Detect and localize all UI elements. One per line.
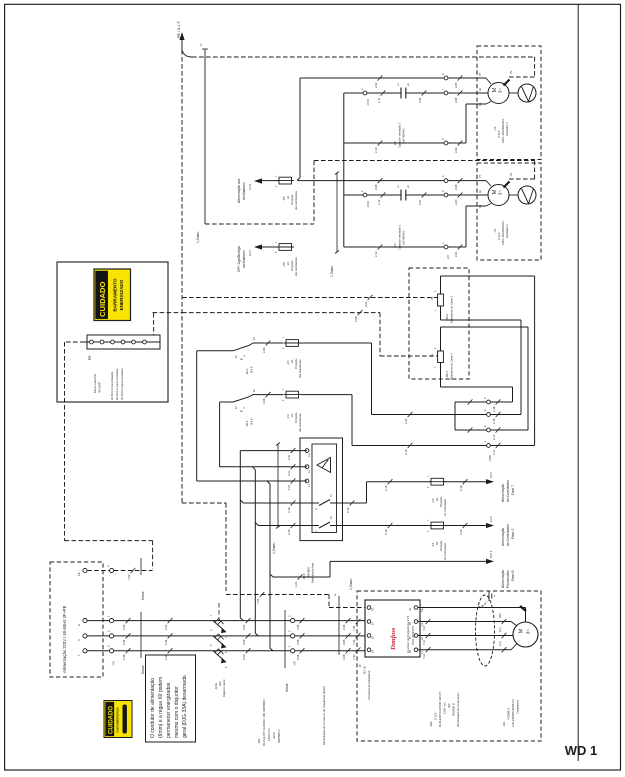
svg-text:2-05: 2-05 xyxy=(342,639,346,645)
svg-text:Danfoss: Danfoss xyxy=(390,627,397,651)
svg-text:CUIDADO: CUIDADO xyxy=(109,706,115,734)
node supply S xyxy=(77,634,87,641)
svg-text:Proteção: Proteção xyxy=(294,358,298,369)
label motor V2 xyxy=(493,118,509,143)
svg-text:Barra metal PE: Barra metal PE xyxy=(93,374,97,393)
node X0 3 xyxy=(107,645,116,666)
svg-text:3~: 3~ xyxy=(498,190,503,195)
svg-text:Proteção: Proteção xyxy=(294,412,298,423)
svg-text:-P5: -P5 xyxy=(282,262,286,267)
wire drive in slashes xyxy=(353,619,360,660)
svg-text:-XV0: -XV0 xyxy=(366,201,370,208)
svg-text:7-4S: 7-4S xyxy=(353,639,356,645)
label PE busbar xyxy=(88,355,102,393)
svg-text:2x 06mm² para fixação: 2x 06mm² para fixação xyxy=(110,371,114,400)
svg-text:-F4: -F4 xyxy=(286,360,290,365)
svg-text:2-12: 2-12 xyxy=(288,484,291,490)
label IF drive xyxy=(358,664,371,700)
svg-text:Resistência do Carter 1: Resistência do Carter 1 xyxy=(450,352,454,380)
svg-text:3~: 3~ xyxy=(498,88,503,93)
svg-text:/9.4 E: /9.4 E xyxy=(250,418,254,425)
wire F4 to XRC3 xyxy=(301,343,487,424)
wire tap L1 xyxy=(197,478,307,650)
node VLT in L3 xyxy=(367,620,374,625)
svg-text:-V1: -V1 xyxy=(493,126,497,131)
svg-text:6mm²: 6mm² xyxy=(141,590,145,600)
label busbar notes xyxy=(110,368,124,400)
svg-text:PT: PT xyxy=(479,72,482,76)
node RFF L2 xyxy=(305,465,311,473)
svg-text:300/500 V: 300/500 V xyxy=(277,729,281,743)
wire drive out L2 xyxy=(418,627,513,645)
svg-text:Inversor de frequência VLT: Inversor de frequência VLT xyxy=(406,616,410,653)
wire RC2 bottom loop xyxy=(441,320,522,415)
svg-text:Alimentação dos: Alimentação dos xyxy=(237,178,241,203)
node X0 2 xyxy=(107,630,114,638)
svg-text:PE: PE xyxy=(372,607,375,611)
svg-text:S: S xyxy=(77,639,81,641)
wire PE main dashed vertical xyxy=(181,50,183,503)
wire 6mm2 gauge XC xyxy=(285,610,289,692)
svg-text:-F3: -F3 xyxy=(286,414,290,419)
svg-text:2-15: 2-15 xyxy=(404,449,408,455)
svg-text:CUIDADO: CUIDADO xyxy=(98,281,107,317)
node RFF L3 xyxy=(305,449,311,457)
svg-text:Fase S: Fase S xyxy=(511,528,515,539)
svg-text:2-15: 2-15 xyxy=(346,507,350,513)
wire drive out L3 xyxy=(418,613,517,631)
svg-text:2-03: 2-03 xyxy=(242,654,246,660)
svg-text:Alimentação 220V / 50-60Hz 3F+: Alimentação 220V / 50-60Hz 3F+PE xyxy=(62,605,67,673)
svg-text:PE / 6.1 F: PE / 6.1 F xyxy=(177,20,181,38)
svg-text:2-13: 2-13 xyxy=(374,251,378,257)
node arrow pressostato fase R xyxy=(486,550,515,588)
svg-text:230V~230V/60Hz/1F: 230V~230V/60Hz/1F xyxy=(501,118,505,143)
motor M1 compressor xyxy=(513,622,538,647)
svg-text:R: R xyxy=(77,624,81,626)
svg-text:2-04: 2-04 xyxy=(296,624,300,630)
resistor RC1 xyxy=(431,327,454,387)
node XRC terminal 1 xyxy=(483,440,500,462)
wire PE dashed to RC1 xyxy=(182,310,437,356)
svg-text:PE: PE xyxy=(77,572,81,576)
svg-text:PE: PE xyxy=(431,353,434,357)
dashed box ventilador 1 group xyxy=(477,163,541,260)
svg-text:-M1: -M1 xyxy=(502,722,506,727)
svg-text:2-05: 2-05 xyxy=(296,639,300,645)
svg-text:2-06: 2-06 xyxy=(374,184,378,190)
svg-text:1,5mm²: 1,5mm² xyxy=(349,578,353,590)
svg-text:F: F xyxy=(240,410,244,412)
svg-text:Alimentação: Alimentação xyxy=(501,484,505,502)
label RFF xyxy=(302,562,315,583)
cable W1 function label xyxy=(322,686,326,745)
svg-text:2-06: 2-06 xyxy=(342,654,346,660)
svg-text:4A: 4A xyxy=(435,542,439,545)
svg-text:6mm²: 6mm² xyxy=(141,664,145,674)
wire supply to X0 PE xyxy=(87,570,109,572)
contact RL1 lower xyxy=(220,389,283,467)
wire phase R row xyxy=(114,618,365,630)
motor V2 fan2 xyxy=(479,72,509,106)
node XV0 terminal fan2 xyxy=(360,88,370,106)
svg-text:2-19: 2-19 xyxy=(459,485,463,491)
motor V2 PE tick xyxy=(504,70,514,85)
wire drive out PE xyxy=(418,608,526,623)
wire fan1 row mid xyxy=(344,192,488,205)
svg-text:-XRC: -XRC xyxy=(488,454,492,462)
capacitor C2 xyxy=(393,83,410,148)
svg-text:2A: 2A xyxy=(290,414,294,417)
svg-text:-RL1: -RL1 xyxy=(245,420,249,427)
wire PE busbar right riser xyxy=(153,313,182,335)
fuse F3 xyxy=(282,388,302,432)
svg-text:2-16: 2-16 xyxy=(384,529,388,535)
svg-text:ventiladores: ventiladores xyxy=(242,250,246,268)
svg-text:9.2 E: 9.2 E xyxy=(248,184,252,190)
svg-text:PE: PE xyxy=(409,607,412,611)
svg-text:PE: PE xyxy=(88,355,92,360)
svg-text:Capacitor ventilador 1: Capacitor ventilador 1 xyxy=(398,224,402,250)
svg-text:2A: 2A xyxy=(286,196,290,199)
svg-text:(U1): (U1) xyxy=(499,641,502,646)
svg-text:2A: 2A xyxy=(290,360,294,363)
svg-text:-V1: -V1 xyxy=(493,228,497,233)
svg-text:2-03: 2-03 xyxy=(374,82,378,88)
svg-text:1-04: 1-04 xyxy=(164,639,168,645)
svg-text:5uF 450VAC: 5uF 450VAC xyxy=(402,230,406,245)
node supply T xyxy=(77,649,87,656)
svg-text:300/500 V: 300/500 V xyxy=(452,703,456,716)
svg-text:-W2: -W2 xyxy=(429,721,433,727)
svg-text:(7.8) F: (7.8) F xyxy=(497,130,501,138)
node XV terminal 8 xyxy=(441,73,448,80)
wire pressostato row xyxy=(270,561,486,587)
label motor V1 xyxy=(493,220,509,245)
svg-text:9.2 F: 9.2 F xyxy=(248,250,252,256)
node XRC terminal 3 xyxy=(483,409,500,424)
motor V1 PE tick xyxy=(504,172,514,187)
svg-text:(7.2) F: (7.2) F xyxy=(434,712,438,720)
wire PE busbar left drop xyxy=(65,342,153,569)
node PE to sheet 6.1F (arrow) xyxy=(177,20,185,50)
svg-text:2-07: 2-07 xyxy=(454,199,458,205)
node XV terminal 7 xyxy=(441,88,448,95)
logo Danfoss xyxy=(390,627,397,651)
cable W2 label xyxy=(429,691,460,727)
fuse P6 xyxy=(275,175,298,210)
svg-text:2x 06mm² para conexões: 2x 06mm² para conexões xyxy=(115,368,119,400)
svg-text:-XV0: -XV0 xyxy=(366,99,370,106)
svg-text:6x 06mm² para conexões: 6x 06mm² para conexões xyxy=(120,368,124,400)
svg-text:do Controlador: do Controlador xyxy=(443,543,447,560)
circuit breaker DJG pole 2 xyxy=(210,629,228,653)
label M1 xyxy=(502,699,520,727)
svg-text:-X0: -X0 xyxy=(112,661,116,666)
dashed OP box xyxy=(205,161,314,225)
svg-text:Disjuntor Geral: Disjuntor Geral xyxy=(222,679,226,697)
svg-text:ENERGIZADO: ENERGIZADO xyxy=(119,279,124,310)
note box text xyxy=(146,655,196,742)
svg-text:Fase T: Fase T xyxy=(511,485,515,495)
svg-text:VTZ086-G: VTZ086-G xyxy=(507,708,511,720)
svg-text:2-11: 2-11 xyxy=(377,97,381,103)
node X0 PE xyxy=(107,565,114,573)
svg-text:33A: 33A xyxy=(218,681,222,686)
relay RFF box xyxy=(300,438,343,541)
label VLT inside xyxy=(406,616,415,653)
wire fan1 row bottom xyxy=(344,204,491,258)
wire PE dashed lower xyxy=(182,503,226,591)
svg-text:7-02: 7-02 xyxy=(256,598,260,604)
svg-text:-XC: -XC xyxy=(293,660,297,666)
svg-text:2-18: 2-18 xyxy=(492,406,496,412)
svg-text:2-11: 2-11 xyxy=(288,471,291,476)
svg-text:208-480V: 208-480V xyxy=(307,566,311,578)
contact RFF 1 xyxy=(240,494,342,513)
svg-text:-F1: -F1 xyxy=(431,542,435,547)
svg-text:2-12: 2-12 xyxy=(377,199,381,205)
wire XRC1 field xyxy=(490,445,534,447)
cable shield xyxy=(476,595,495,666)
node XV0 terminal fan1 xyxy=(360,190,370,208)
svg-text:do Controlador: do Controlador xyxy=(506,479,510,502)
svg-text:5uF 450VAC: 5uF 450VAC xyxy=(402,128,406,143)
node XRC terminal 2 xyxy=(483,425,500,440)
wire PE into fan1 box xyxy=(314,161,535,180)
contact RL1 upper xyxy=(197,337,283,481)
node VLT out L1 xyxy=(409,648,424,654)
node supply fans switch arrow 9.2F xyxy=(237,244,279,272)
svg-text:Compressor: Compressor xyxy=(516,700,520,714)
node VLT in L1 xyxy=(367,648,374,653)
svg-text:1-06: 1-06 xyxy=(122,654,126,660)
svg-text:das resistências: das resistências xyxy=(298,359,302,378)
svg-text:Alimentação: Alimentação xyxy=(501,528,505,546)
svg-text:-XV: -XV xyxy=(446,255,450,260)
node XC 2 xyxy=(288,630,295,638)
svg-text:M: M xyxy=(519,628,525,633)
svg-text:-F2: -F2 xyxy=(431,498,435,503)
wire RC2 top loop xyxy=(441,276,535,446)
wire F3 to XRC1 xyxy=(301,395,487,455)
wire fan2 bus vertical xyxy=(343,93,345,247)
svg-text:CDS 303/103: CDS 303/103 xyxy=(411,626,415,645)
svg-text:1,5mm²: 1,5mm² xyxy=(272,542,276,554)
svg-text:BARRAMENTO: BARRAMENTO xyxy=(113,278,118,312)
svg-text:F: F xyxy=(240,358,244,360)
svg-text:ÖLFLEX® CLASSIC 100 300/500V: ÖLFLEX® CLASSIC 100 300/500V xyxy=(262,699,266,746)
fuse F2 xyxy=(427,475,447,516)
svg-text:-W1: -W1 xyxy=(257,738,261,744)
svg-text:1200 mm: 1200 mm xyxy=(443,702,447,714)
dashed box drive compressor unit xyxy=(357,591,541,741)
wire 6mm2 gauge X0 xyxy=(141,612,145,674)
svg-text:2-05: 2-05 xyxy=(454,82,458,88)
svg-text:mesmo com o disjuntor: mesmo com o disjuntor xyxy=(174,686,180,738)
wire fan2 row mid xyxy=(344,90,488,103)
svg-text:2-10: 2-10 xyxy=(374,147,378,153)
label DJG xyxy=(214,679,226,697)
warning label CUIDADO BARRAMENTO ENERGIZADO xyxy=(94,269,131,321)
node XV terminal 5 xyxy=(441,138,448,145)
ground symbol shield xyxy=(478,591,495,607)
svg-text:2-06: 2-06 xyxy=(454,184,458,190)
motor V1 fan1 xyxy=(479,174,509,208)
svg-text:2-14: 2-14 xyxy=(404,418,408,424)
svg-text:Alimentação: Alimentação xyxy=(501,570,505,588)
node XRC terminal 4 xyxy=(483,397,500,412)
node X0 1 xyxy=(107,615,114,623)
node VLT out L3 xyxy=(409,620,424,626)
PE busbar xyxy=(84,335,160,349)
svg-text:Ventilador 2: Ventilador 2 xyxy=(505,122,509,136)
svg-text:2-17: 2-17 xyxy=(492,434,496,440)
svg-text:-DJG: -DJG xyxy=(214,682,218,690)
warning label CUIDADO small xyxy=(104,701,132,738)
svg-text:1-04: 1-04 xyxy=(122,639,126,645)
svg-text:Proteção: Proteção xyxy=(290,260,294,271)
title block divider line xyxy=(577,4,579,761)
wire F1 row xyxy=(330,523,431,535)
dashed box resistencias carter xyxy=(409,268,469,379)
svg-text:Proteção: Proteção xyxy=(290,194,294,205)
node XC 3 xyxy=(288,615,295,623)
wire X0 PE out xyxy=(114,558,153,600)
svg-text:2-08: 2-08 xyxy=(262,347,266,353)
svg-text:Ventilador 1: Ventilador 1 xyxy=(505,224,509,238)
svg-text:do Controlador: do Controlador xyxy=(506,523,510,546)
svg-text:2-04: 2-04 xyxy=(454,97,458,103)
svg-text:4x6: 4x6 xyxy=(447,703,451,708)
svg-text:7-4R: 7-4R xyxy=(353,654,356,660)
svg-text:2-21: 2-21 xyxy=(294,581,298,587)
wire XRC4 field xyxy=(490,401,512,403)
svg-text:1,5mm²: 1,5mm² xyxy=(196,231,200,243)
svg-text:WD 1: WD 1 xyxy=(565,743,598,758)
svg-text:Alimentação do compressor: Alimentação do compressor xyxy=(456,692,460,727)
svg-text:Alimentação do conversor de fr: Alimentação do conversor de frequência (… xyxy=(322,686,326,745)
svg-text:2-01: 2-01 xyxy=(454,251,458,257)
svg-text:OP+ Liga/Desliga: OP+ Liga/Desliga xyxy=(237,246,241,272)
node VLT out PE xyxy=(409,606,424,612)
wire XRC2 field xyxy=(490,429,528,431)
svg-text:2-17: 2-17 xyxy=(492,449,496,455)
svg-text:3~: 3~ xyxy=(526,629,532,635)
svg-text:Pressostato: Pressostato xyxy=(506,570,510,588)
svg-text:(7.5) F: (7.5) F xyxy=(497,232,501,240)
panel enclosure box xyxy=(57,262,168,402)
svg-text:dos ventiladores: dos ventiladores xyxy=(294,256,298,276)
svg-text:2-15: 2-15 xyxy=(384,485,388,491)
wire PE into fan2 box xyxy=(509,57,535,77)
svg-text:Proteção: Proteção xyxy=(439,496,443,507)
svg-text:/9.4 E: /9.4 E xyxy=(250,366,254,373)
label 1,5mm2 top xyxy=(196,231,200,243)
svg-text:PE: PE xyxy=(510,70,513,74)
svg-text:7-4B: 7-4B xyxy=(353,625,356,631)
svg-text:7-02: 7-02 xyxy=(127,574,131,580)
svg-text:2-08: 2-08 xyxy=(262,398,266,404)
svg-text:2-01: 2-01 xyxy=(242,624,246,630)
svg-text:2-02: 2-02 xyxy=(454,147,458,153)
svg-text:2-07: 2-07 xyxy=(418,199,422,205)
svg-text:2-02: 2-02 xyxy=(242,639,246,645)
svg-text:PE: PE xyxy=(420,608,424,612)
node supply fans arrow 9.2E xyxy=(237,178,279,203)
wire supply to X0 phases xyxy=(87,621,109,651)
svg-text:4"CX3/8": 4"CX3/8" xyxy=(98,382,102,393)
wire RFF out to F2 xyxy=(343,482,367,513)
svg-text:(V1): (V1) xyxy=(499,627,502,632)
svg-text:2-04: 2-04 xyxy=(418,97,422,103)
wire RFF gauge 1,5mm2 xyxy=(272,443,280,555)
svg-text:ÖLFLEX® CLASSIC 110 CY: ÖLFLEX® CLASSIC 110 CY xyxy=(438,691,442,727)
dashed box ventilador 2 group xyxy=(477,46,541,160)
svg-text:2-18: 2-18 xyxy=(492,418,496,424)
node VLT in L2 xyxy=(367,634,374,639)
cable W1 label xyxy=(257,699,281,746)
svg-text:PE: PE xyxy=(510,172,513,176)
wire fan2 row top xyxy=(300,75,491,88)
svg-text:Fase R: Fase R xyxy=(511,570,515,581)
svg-text:ventiladores: ventiladores xyxy=(242,182,246,200)
circuit breaker DJG pole 3 xyxy=(210,644,228,668)
svg-text:2-06: 2-06 xyxy=(296,654,300,660)
wire PE dashed top horizontal to fans xyxy=(182,50,535,57)
fuse F4 xyxy=(282,336,302,378)
svg-text:dos ventiladores: dos ventiladores xyxy=(294,190,298,210)
svg-text:7-13: 7-13 xyxy=(423,625,426,631)
svg-text:2-03: 2-03 xyxy=(364,301,368,307)
wire phase T row xyxy=(114,648,365,660)
resistor RC2 xyxy=(431,276,454,323)
svg-text:-IF: -IF xyxy=(358,664,362,668)
wire drive out L1 xyxy=(418,641,517,659)
fan symbol 2 xyxy=(509,84,536,102)
node VLT out L2 xyxy=(409,634,424,640)
svg-text:Resistência do Carter 2: Resistência do Carter 2 xyxy=(450,295,454,323)
svg-text:Conversor de Frequência: Conversor de Frequência xyxy=(367,670,371,700)
wire F2 row xyxy=(367,479,432,491)
svg-text:do Controlador: do Controlador xyxy=(443,499,447,516)
node arrow controlador fase S xyxy=(444,516,516,546)
RFF warning triangle xyxy=(317,458,331,473)
svg-text:230V~230V/60Hz/1F: 230V~230V/60Hz/1F xyxy=(501,220,505,245)
svg-text:permanecer energizados: permanecer energizados xyxy=(166,682,172,738)
capacitor C1 xyxy=(393,185,410,250)
svg-text:2-20: 2-20 xyxy=(459,529,463,535)
node XV terminal 3 xyxy=(441,190,448,197)
svg-text:1,5mm²: 1,5mm² xyxy=(330,265,334,277)
node XV terminal 4 xyxy=(441,175,448,183)
wire fan2 row bottom xyxy=(344,102,491,154)
wire PE dashed to drive xyxy=(226,592,365,608)
node VLT in PE xyxy=(367,606,374,611)
svg-text:-RC1: -RC1 xyxy=(445,371,449,378)
title text WD 1 xyxy=(565,743,598,758)
svg-text:CABO ENERGIZADO: CABO ENERGIZADO xyxy=(116,707,120,733)
svg-text:Relé falta de fase: Relé falta de fase xyxy=(311,562,315,583)
motor M1 PE corner tick xyxy=(520,606,526,611)
frequency drive VLT box xyxy=(365,600,420,657)
wire tap L2 xyxy=(220,464,307,636)
node XC 1 xyxy=(288,645,297,666)
svg-text:geral (DJG 33A) desarmado.: geral (DJG 33A) desarmado. xyxy=(182,674,188,738)
node supply R xyxy=(77,619,87,627)
node supply PE xyxy=(77,568,87,576)
wire tap L3 xyxy=(240,448,307,621)
